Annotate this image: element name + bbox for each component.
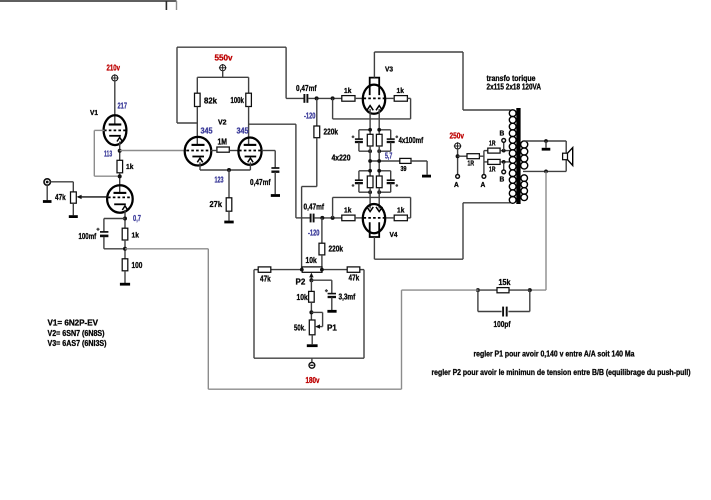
wire V2a plate branch to top rail <box>177 47 197 123</box>
wire V1 output to V2 grid <box>120 150 187 152</box>
svg-text:10k: 10k <box>306 256 318 265</box>
svg-text:regler P1 pour avoir 0,140 v e: regler P1 pour avoir 0,140 v entre A/A s… <box>474 350 635 359</box>
wire cathode join <box>200 169 250 171</box>
triode V1b grid <box>108 196 132 198</box>
triode V2a cathode <box>192 157 204 163</box>
tube V4 cathodes <box>367 207 383 212</box>
wire V2b grid to bypass cap <box>262 151 276 168</box>
svg-text:1M: 1M <box>218 138 228 147</box>
resistor 39 <box>400 158 411 163</box>
wire top edge <box>0 0 177 2</box>
wire 1k right to loop <box>407 97 410 99</box>
wire V4 grid to 1k right <box>385 217 394 219</box>
wire bias top bracket lower left <box>359 170 370 172</box>
node V3 grid split <box>331 96 335 100</box>
wire V1b cathode lead <box>124 210 126 228</box>
triode V1a grid <box>94 129 126 131</box>
wire V3 plate to transfo <box>374 52 510 110</box>
wire 100k to V2b plate <box>248 107 250 145</box>
node NFB left <box>476 288 480 292</box>
svg-text:1k: 1k <box>344 208 351 215</box>
node feedback tap <box>123 247 127 251</box>
svg-text:0,47mf: 0,47mf <box>250 178 271 187</box>
wire grid to 1M left <box>211 150 217 152</box>
triode V1a cathode <box>109 136 122 142</box>
svg-text:100k: 100k <box>231 96 245 105</box>
svg-text:0,47mf: 0,47mf <box>296 84 317 93</box>
svg-text:1k: 1k <box>126 164 133 171</box>
tube V3 plate <box>370 78 380 96</box>
wire P1 to ground <box>311 335 313 344</box>
pot 47k wiper to V1b grid <box>77 195 109 199</box>
wire bypass cap to ground <box>274 172 276 194</box>
svg-text:1R: 1R <box>489 141 496 148</box>
wire C2 to node <box>315 217 342 219</box>
wire bias top bracket right <box>379 129 391 131</box>
wire C1 to node <box>308 97 341 99</box>
svg-text:123: 123 <box>215 176 224 185</box>
node V1b cathode <box>123 217 127 221</box>
wire bias box bottom <box>254 357 364 359</box>
node V1 output <box>118 149 122 153</box>
capacitor 3,3mf <box>328 294 336 297</box>
svg-text:P1: P1 <box>327 324 337 333</box>
node bias <box>377 169 381 173</box>
transformer secondary winding upper <box>521 141 528 169</box>
svg-text:39: 39 <box>401 166 407 173</box>
resistor 1k V3 grid right <box>394 96 407 102</box>
wire V4 plate to transfo <box>374 203 510 259</box>
wire bias box right <box>363 270 365 359</box>
svg-text:0,7: 0,7 <box>133 214 141 223</box>
resistor 220 lower right <box>376 176 382 188</box>
terminal B lower <box>502 162 506 174</box>
wire bias mid row <box>370 160 400 162</box>
node SRPP <box>118 174 122 178</box>
resistor 82k <box>195 93 201 106</box>
node B upper <box>502 149 506 153</box>
svg-text:220k: 220k <box>324 128 339 137</box>
resistor 1k V4 grid right <box>394 215 407 221</box>
ground 3,3mf <box>327 310 336 313</box>
svg-text:1k: 1k <box>397 208 404 215</box>
resistor 47k left <box>258 267 271 272</box>
wire V3 plate lead <box>373 52 375 78</box>
wire 100 to ground <box>124 271 126 284</box>
wire 1k right to loop <box>407 217 410 219</box>
wire 82k to V2a plate <box>196 107 198 145</box>
svg-text:V4: V4 <box>390 232 398 239</box>
wire 3,3mf to ground <box>331 297 333 310</box>
transformer core <box>516 108 520 204</box>
triode V2a envelope <box>185 137 212 166</box>
wire 1k to V3 grid <box>355 97 363 99</box>
wire rail to 100k <box>248 77 250 93</box>
wire to 100mf <box>104 219 125 232</box>
wire V3 grid loop <box>333 98 411 119</box>
wire bias bottom bracket lower right <box>379 191 391 193</box>
tube V4 grid <box>364 217 385 219</box>
wire node to 220k top <box>316 98 318 126</box>
svg-text:50k.: 50k. <box>294 324 306 333</box>
wire split to 1R lower <box>484 161 488 163</box>
wire V3 grid to 1k right <box>385 97 394 99</box>
capacitor 100mf upper left <box>355 130 363 151</box>
supply 550v symbol <box>219 64 227 72</box>
triode V2a grid <box>187 150 211 152</box>
node bias <box>368 190 372 194</box>
wire bias bottom bracket lower left <box>359 191 370 193</box>
resistor 1R common <box>467 154 479 159</box>
wire 1R to split <box>479 151 484 162</box>
wire 27k to ground <box>228 211 230 220</box>
wire bias top bracket lower right <box>379 170 391 172</box>
resistor 1M <box>217 147 229 152</box>
wire 550v rail <box>197 76 248 78</box>
wire pot to ground <box>72 203 74 215</box>
ground secondary <box>542 141 551 149</box>
triode V2a plate <box>192 144 205 146</box>
svg-text:V2: V2 <box>218 120 227 127</box>
wire 39 to ground <box>411 161 427 175</box>
svg-text:47k: 47k <box>55 193 66 202</box>
resistor 1R lower <box>488 159 500 164</box>
resistor 1R upper <box>488 148 500 153</box>
wire NFB to bias box <box>402 289 478 291</box>
svg-text:47k: 47k <box>349 274 360 283</box>
wire jack to ground <box>46 185 48 200</box>
potentiometer 47k <box>71 192 77 203</box>
wire V3 cathode leads <box>370 109 379 134</box>
capacitor C2 0,47mf coupling <box>296 214 314 223</box>
svg-text:1R: 1R <box>489 167 496 174</box>
terminal A left <box>456 175 460 179</box>
ground 27k <box>224 221 233 224</box>
capacitor C1 0,47mf coupling <box>304 94 307 103</box>
node 250v <box>456 154 460 158</box>
svg-text:1k: 1k <box>344 88 351 95</box>
ground P1 <box>307 344 318 347</box>
triode V1b plate <box>114 192 127 194</box>
svg-text:10k: 10k <box>297 293 309 302</box>
node bias <box>377 190 381 194</box>
svg-text:5,7: 5,7 <box>385 152 393 161</box>
svg-text:4x100mf: 4x100mf <box>399 136 424 145</box>
node C1 out <box>315 96 319 100</box>
resistor 1k V3 grid left <box>342 96 355 102</box>
speaker <box>563 148 573 166</box>
resistor 100k <box>246 93 252 106</box>
wire 550v to rail <box>222 70 224 77</box>
node C2 out <box>320 216 324 220</box>
wire 100mf to node <box>104 237 125 249</box>
svg-text:1k: 1k <box>132 233 139 240</box>
svg-text:1R: 1R <box>468 161 475 168</box>
node bias <box>377 128 381 132</box>
terminal A right <box>482 162 486 178</box>
wire bias bottom bracket left <box>359 150 370 152</box>
wire 1M to V2b grid <box>229 150 239 152</box>
transformer primary winding <box>509 110 516 204</box>
resistor 220 lower left <box>367 176 373 188</box>
tube V4 envelope <box>363 204 385 233</box>
node V2 cathode <box>227 168 231 172</box>
wire wiper to 3,3mf <box>311 280 331 293</box>
wire speaker right edge <box>565 141 567 171</box>
wire V2a cathode lead <box>199 162 201 170</box>
svg-text:113: 113 <box>104 150 113 159</box>
svg-text:regler P2 pour avoir le minimu: regler P2 pour avoir le minimun de tensi… <box>432 368 691 377</box>
triode V1a envelope <box>104 115 127 145</box>
svg-text:A: A <box>481 182 486 189</box>
capacitor 100pf bypass <box>478 290 530 316</box>
wire top stub left <box>165 1 167 10</box>
wire V2b cathode lead <box>249 162 251 170</box>
triode V1b cathode <box>114 204 128 210</box>
node secondary ground tap <box>544 139 548 143</box>
svg-text:27k: 27k <box>210 200 223 209</box>
wire bias top bracket left <box>359 129 370 131</box>
svg-text:210v: 210v <box>107 63 121 73</box>
capacitor 100mf upper right <box>387 130 395 151</box>
svg-text:P2: P2 <box>296 278 306 287</box>
wire bias leads mid <box>370 146 379 176</box>
resistor 220k bottom <box>319 243 325 255</box>
svg-text:V2= 6SN7 (6N8S): V2= 6SN7 (6N8S) <box>48 329 105 338</box>
node bias <box>368 128 372 132</box>
supply 210v symbol <box>111 74 119 82</box>
node bias <box>368 169 372 173</box>
tube V3 grid <box>364 97 385 99</box>
resistor 10k vertical <box>309 280 315 302</box>
svg-text:1k: 1k <box>397 88 404 95</box>
resistor 220 upper left <box>367 134 373 146</box>
tube V4 plate <box>370 222 380 237</box>
capacitor polarity marks <box>97 136 399 293</box>
wire secondary bottom <box>523 170 566 172</box>
svg-text:47k: 47k <box>260 275 271 284</box>
terminal B upper <box>502 139 506 151</box>
resistor 27k <box>226 198 232 211</box>
input jack <box>44 179 50 185</box>
wire jack to pot <box>50 182 73 192</box>
wire V2b plate branch to cap2 <box>249 124 296 218</box>
capacitor 100mf <box>100 232 108 236</box>
svg-text:217: 217 <box>118 102 128 111</box>
svg-text:100: 100 <box>132 261 143 270</box>
svg-text:V3: V3 <box>385 67 393 74</box>
wire V1a grid return <box>94 130 119 176</box>
svg-text:V3= 6AS7 (6NI3S): V3= 6AS7 (6NI3S) <box>48 339 107 348</box>
wire 1R lower to winding <box>500 161 510 163</box>
wire V4 cathode leads <box>370 188 379 209</box>
resistor 1k V1a cathode <box>117 160 123 173</box>
potentiometer P1 50k <box>309 320 315 335</box>
svg-text:B: B <box>500 131 505 138</box>
svg-text:B: B <box>500 177 505 184</box>
wire P1 wiper link <box>311 312 322 328</box>
svg-text:2x115 2x18 120VA: 2x115 2x18 120VA <box>487 83 542 92</box>
svg-text:A: A <box>454 182 459 189</box>
triode V2b cathode <box>245 157 257 163</box>
node P1 top <box>309 310 313 314</box>
wire 1k to SRPP node <box>119 173 121 193</box>
node P2 wiper <box>309 278 313 282</box>
svg-text:345: 345 <box>237 127 250 136</box>
wire V4 grid loop <box>333 197 411 218</box>
wire NFB through 15k <box>478 289 530 291</box>
svg-text:V1: V1 <box>90 110 98 117</box>
wire bias row <box>254 269 364 271</box>
svg-text:4x220: 4x220 <box>332 154 351 163</box>
wire speaker to NFB <box>530 171 546 290</box>
wire split to 1R upper <box>484 150 488 152</box>
resistor 47k right <box>347 267 360 272</box>
triode V1b envelope <box>107 185 133 212</box>
resistor 15k <box>497 288 509 293</box>
capacitor 100mf lower left <box>355 171 363 192</box>
node bias <box>377 149 381 153</box>
node bias <box>368 149 372 153</box>
svg-text:82k: 82k <box>204 97 218 106</box>
node row right <box>320 268 324 272</box>
wire 250v to 1R <box>458 155 467 157</box>
wire secondary top <box>523 140 566 142</box>
node secondary out <box>544 170 548 174</box>
wire 250v down <box>457 148 459 174</box>
svg-text:-120: -120 <box>304 112 316 121</box>
triode V2b grid <box>239 150 262 152</box>
svg-text:0,47mf: 0,47mf <box>304 203 325 212</box>
wire top stub right <box>176 1 178 10</box>
wire 1R upper to winding <box>500 150 510 152</box>
svg-text:V1= 6N2P-EV: V1= 6N2P-EV <box>48 319 99 328</box>
capacitor 0,47mf grid bypass <box>271 168 279 172</box>
wire 1k to V4 grid <box>355 217 363 219</box>
node mid <box>368 159 372 163</box>
svg-text:180v: 180v <box>306 375 320 385</box>
transformer secondary winding lower <box>521 175 528 201</box>
resistor 1k V1b cathode <box>122 228 128 240</box>
pot P2 wiper <box>309 273 313 281</box>
svg-text:550v: 550v <box>215 53 233 63</box>
potentiometer P2 10k <box>302 267 322 272</box>
svg-text:100pf: 100pf <box>494 320 511 329</box>
ground bypass cap <box>271 194 280 197</box>
resistor 1k V4 grid left <box>342 215 355 221</box>
supply -180v symbol <box>309 358 315 368</box>
ground 39 <box>422 175 431 178</box>
svg-text:3,3mf: 3,3mf <box>339 293 356 302</box>
svg-text:100mf: 100mf <box>79 232 97 241</box>
wire 220k bottom to bias row <box>321 255 323 270</box>
capacitor 100mf lower right <box>387 171 395 192</box>
wire 1k to node <box>124 240 126 259</box>
wire rail to 82k <box>196 77 198 93</box>
resistor 100 <box>122 259 128 271</box>
tube V3 cathodes <box>367 106 383 111</box>
ground V1 <box>120 283 130 286</box>
wire NFB loop <box>125 249 402 389</box>
svg-text:250v: 250v <box>450 131 465 141</box>
svg-text:-120: -120 <box>308 229 320 238</box>
triode V2b plate <box>244 144 257 146</box>
triode V2b envelope <box>238 138 261 165</box>
tube V3 envelope <box>363 85 385 114</box>
ground pot <box>69 215 78 218</box>
node NFB right <box>528 288 532 292</box>
resistor 220 upper right <box>376 134 382 146</box>
wire 10k to P1 <box>310 302 312 320</box>
svg-text:15k: 15k <box>499 278 511 287</box>
wire bias bottom bracket right <box>379 150 391 152</box>
wire node to 220k bottom <box>321 218 323 243</box>
wire top coupling rail <box>177 47 304 98</box>
wire bias box left <box>253 270 255 359</box>
ground jack <box>43 200 52 203</box>
supply 250v symbol <box>454 142 462 150</box>
resistor 220k top <box>314 126 320 138</box>
node mid <box>377 159 381 163</box>
node B lower <box>502 160 506 164</box>
node row left <box>300 268 304 272</box>
wire to 27k <box>228 170 230 198</box>
node V4 grid split <box>331 216 335 220</box>
triode V1a plate <box>109 123 122 125</box>
svg-text:345: 345 <box>201 127 214 136</box>
wire V1a cathode lead <box>119 142 121 161</box>
wire 210v to V1 plate <box>114 80 116 124</box>
wire 220k top to bias row <box>302 138 317 270</box>
svg-text:220k: 220k <box>329 245 344 254</box>
